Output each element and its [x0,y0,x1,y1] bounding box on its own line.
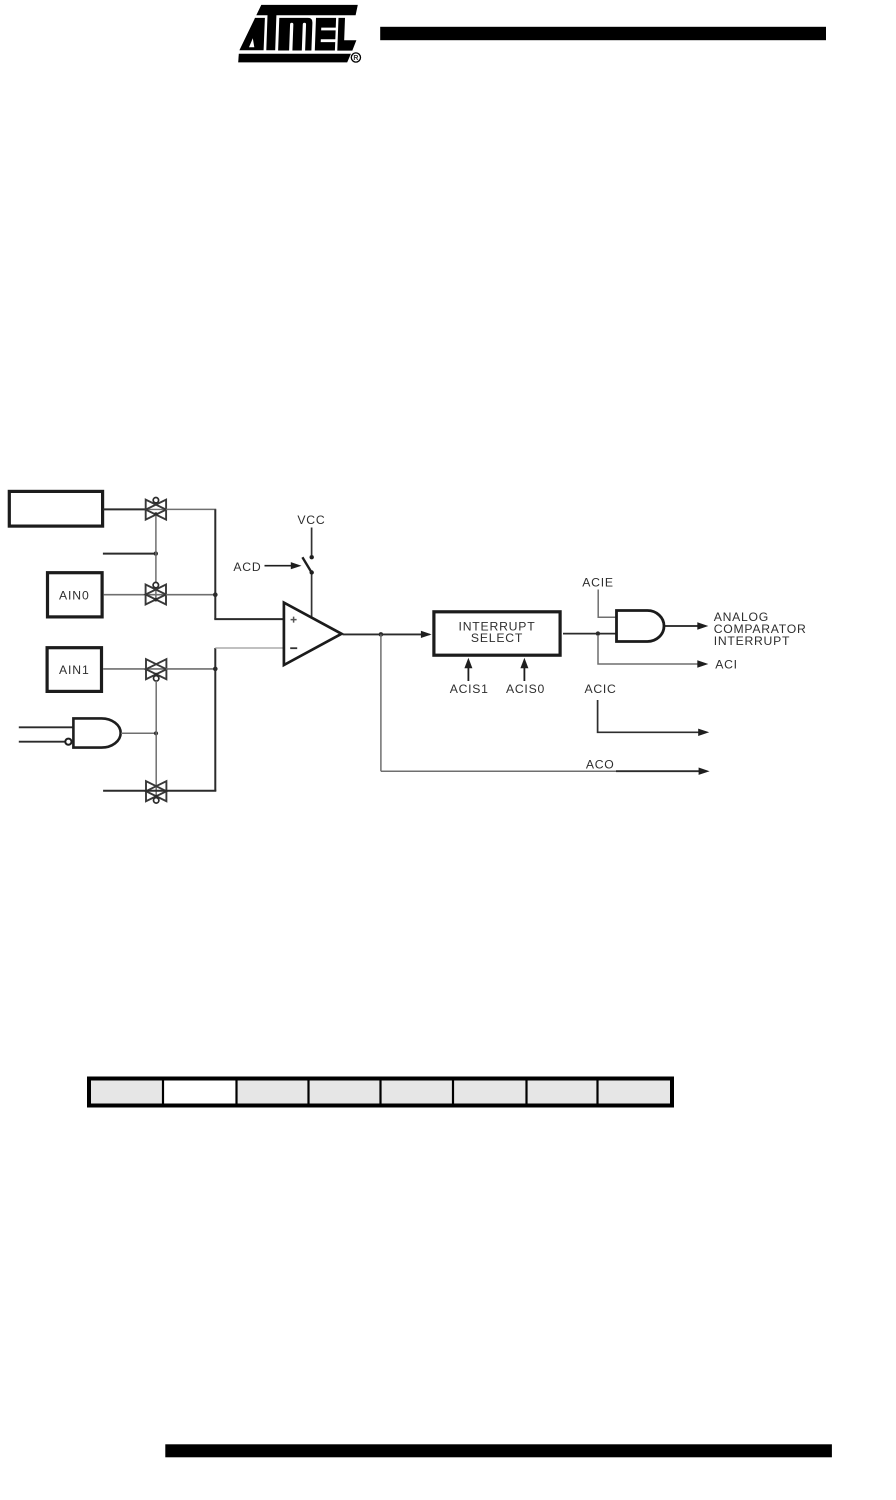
NAND gate [65,718,120,747]
arrow: ACIS1 [464,658,472,681]
wire: bandgap to SW1 [103,508,147,510]
analog switch SW4 [146,781,166,803]
wire: SW2 output [166,594,215,596]
wire: AIN1 to SW3 [103,668,166,670]
arrow: ACIS0 [520,658,528,681]
svg-text:ACIC: ACIC [584,682,616,696]
svg-text:SELECT: SELECT [471,631,523,645]
analog switch SW3 [146,659,166,681]
wire: VCC drop [311,528,313,556]
wire: interrupt select to AND gate [563,633,617,635]
AND gate [617,611,665,642]
wire: SW4 output [166,790,216,792]
wire: comparator output [343,633,430,635]
NAND gate inputs [19,726,73,728]
analog switch SW1 [146,498,166,520]
svg-text:ACD: ACD [233,560,261,574]
wire: SW3 output [166,668,215,670]
svg-text:ACIE: ACIE [582,575,613,589]
wire: control stub [103,553,156,555]
interrupt select box [434,612,560,655]
svg-text:AIN1: AIN1 [59,663,90,677]
wire: AIN0 to SW2 [104,594,167,596]
register bit table [89,1078,672,1106]
svg-text:ACIS1: ACIS1 [450,682,489,696]
arrow into interrupt select [421,631,432,638]
wire: minus rail vertical [214,648,216,791]
label: analog comparator interrupt [714,610,807,648]
wire: SW1 output [166,508,216,510]
wire: plus rail vertical [214,509,216,619]
op-amp comparator [284,603,342,665]
svg-text:ACIS0: ACIS0 [506,682,545,696]
AIN1 box [47,648,101,692]
svg-text:ACO: ACO [586,757,615,771]
wire: NAND output [121,732,156,734]
svg-text:VCC: VCC [297,513,325,527]
footer rule bar [165,1444,832,1457]
junction dot: ACI tap [596,631,600,635]
junction dot: ACO tap [379,632,384,637]
bandgap reference box [9,491,102,526]
wire: SW4 stub input [103,790,166,792]
svg-text:INTERRUPT: INTERRUPT [714,634,791,648]
junction dot: SW2 output [213,592,218,597]
analog switch SW2 [146,582,166,604]
wire: plus input [214,618,284,620]
ACD switch [302,555,314,575]
wire: ACIE to AND gate [598,590,616,618]
wire: ACO vertical [380,634,382,771]
svg-text:AIN0: AIN0 [59,588,90,602]
svg-text:R: R [353,55,358,62]
svg-text:ACI: ACI [715,658,738,672]
AIN0 box [48,573,103,617]
header rule bar [380,27,826,40]
arrow: ACD [265,562,302,569]
wire: ACO horizontal [381,768,710,775]
wire: ACI [598,635,708,668]
Atmel logo [238,5,360,63]
wire: SW3-SW4 control link [155,681,157,797]
junction dot: NAND output [154,731,158,735]
junction dot: control stub [154,551,158,555]
wire: SW1-SW2 control link [155,516,157,600]
junction dot: SW3 output [213,667,218,672]
wire: minus input [215,647,284,649]
wire: switch to comparator [311,575,313,618]
wire: ACIC [598,700,710,736]
arrow: analog comparator interrupt [664,622,708,629]
